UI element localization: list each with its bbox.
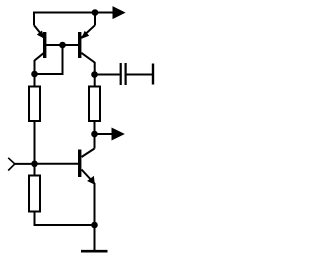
node Q2 collector junction — [91, 71, 98, 78]
wire output lead — [95, 133, 113, 135]
node emitter-ground junction — [91, 222, 98, 229]
node Q1 collector junction — [31, 71, 38, 78]
wire Q1 base to Q2 base — [46, 44, 78, 46]
wire base tie-down — [35, 45, 63, 74]
wire R1 to input node — [34, 121, 36, 164]
wire Q3 base — [35, 163, 79, 165]
ground — [81, 250, 108, 253]
wire R3 to ground rail — [35, 212, 95, 226]
wire ground drop — [94, 225, 96, 250]
wire R2 to output node — [94, 121, 96, 149]
node input junction — [31, 161, 38, 168]
wire Q3 emitter drop — [94, 183, 96, 225]
transistor Q3 — [78, 149, 95, 185]
resistor R2 — [89, 87, 100, 122]
wire Q1 collector drop — [34, 60, 36, 87]
port arrow top right — [113, 6, 126, 19]
wire Q1 emitter drop — [33, 12, 35, 26]
wire top supply rail — [34, 12, 113, 14]
port input chevron — [8, 158, 15, 171]
wire to capacitor — [95, 74, 120, 76]
wire Q2 emitter drop — [94, 12, 96, 26]
node base junction — [59, 42, 66, 49]
transistor Q2 — [78, 25, 95, 62]
port arrow output — [112, 128, 125, 141]
wire input node to R3 — [34, 164, 36, 176]
resistor R1 — [29, 87, 40, 122]
transistor Q1 — [34, 25, 46, 60]
node output junction — [91, 131, 98, 138]
capacitor C1 — [121, 63, 126, 85]
node top rail junction — [92, 9, 99, 16]
wire input lead — [15, 163, 35, 165]
terminal bar right — [152, 64, 154, 85]
wire capacitor to terminal — [127, 74, 153, 76]
wire Q2 collector drop — [94, 62, 96, 87]
resistor R3 — [29, 176, 40, 212]
